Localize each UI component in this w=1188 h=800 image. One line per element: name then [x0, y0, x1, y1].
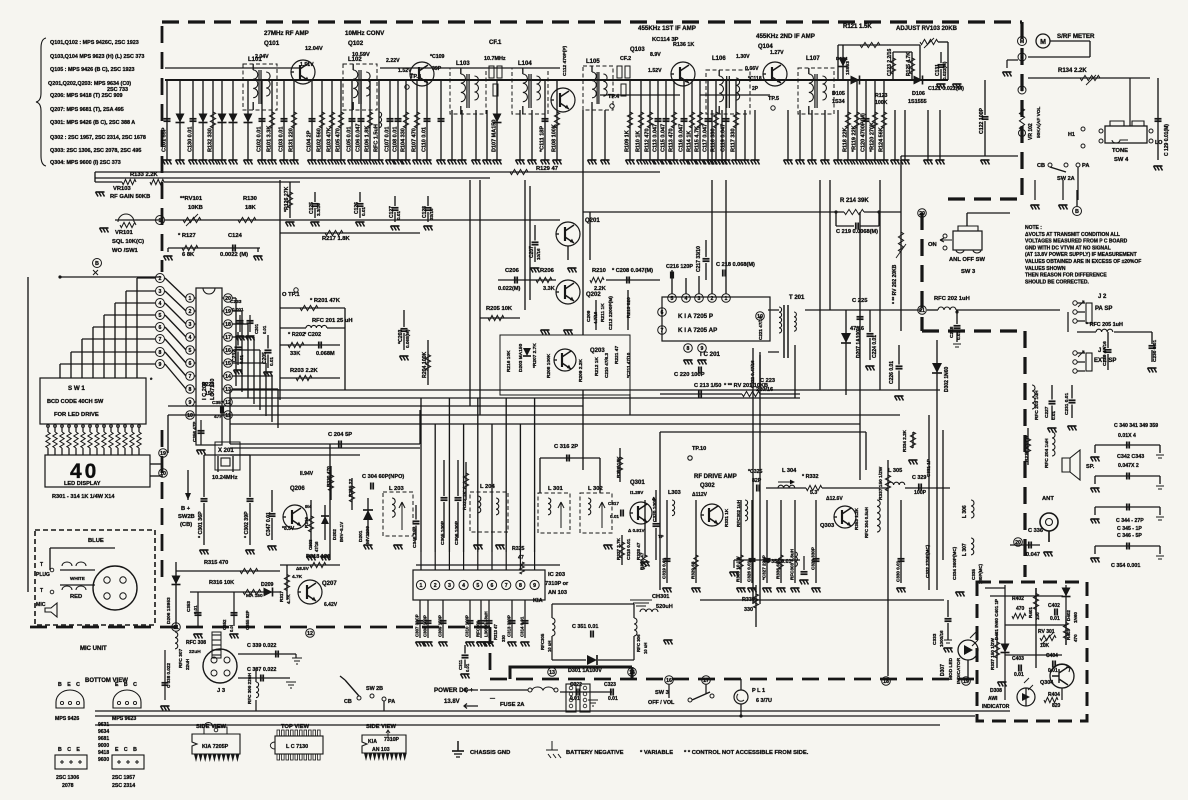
svg-text:9600: 9600: [98, 757, 109, 763]
svg-text:R217 1.8K: R217 1.8K: [322, 236, 351, 242]
svg-text:PA: PA: [1082, 163, 1089, 169]
svg-text:—: —: [490, 696, 495, 702]
svg-text:*8.5V: *8.5V: [282, 526, 295, 532]
svg-text:0.01: 0.01: [239, 355, 244, 364]
svg-text:Q303: Q303: [820, 523, 835, 529]
svg-text:TOP VIEW: TOP VIEW: [281, 724, 310, 730]
svg-text:L104: L104: [518, 61, 532, 67]
svg-text:H1: H1: [1068, 132, 1075, 138]
svg-text:*C109: *C109: [430, 54, 445, 60]
svg-text:R337 150 1/2W: R337 150 1/2W: [990, 637, 995, 670]
svg-text:C224 0.01: C224 0.01: [872, 335, 878, 358]
svg-text:VOLTAGES MEASURED FROM P C B: VOLTAGES MEASURED FROM P C BOARD: [1025, 239, 1128, 245]
svg-text:M: M: [1040, 39, 1046, 46]
svg-text:* C302 39P: * C302 39P: [244, 511, 250, 538]
svg-text:*C111 18P: *C111 18P: [540, 126, 546, 152]
svg-text:S W 1: S W 1: [68, 385, 85, 392]
svg-text:R129 47: R129 47: [536, 166, 558, 172]
svg-text:16: 16: [225, 348, 231, 354]
svg-text:9681: 9681: [98, 736, 109, 742]
svg-text:C319 0.01: C319 0.01: [662, 557, 667, 579]
svg-text:C323: C323: [604, 682, 616, 688]
svg-text:D106: D106: [912, 91, 925, 97]
svg-text:11: 11: [173, 625, 179, 631]
svg-text:* R332: * R332: [802, 474, 818, 480]
svg-text:6: 6: [491, 583, 494, 589]
svg-text:0.022(M): 0.022(M): [498, 286, 521, 292]
svg-text:THEN REASON FOR DIFFERENCE: THEN REASON FOR DIFFERENCE: [1025, 273, 1107, 279]
svg-text:R206: R206: [540, 268, 555, 274]
svg-text:1: 1: [159, 218, 162, 224]
svg-text:J 3: J 3: [217, 688, 226, 694]
svg-text:L 305: L 305: [888, 468, 902, 474]
svg-text:C217 33/10: C217 33/10: [696, 246, 702, 272]
svg-text:2.2K: 2.2K: [594, 286, 606, 292]
svg-text:C106 0.047: C106 0.047: [356, 124, 362, 152]
svg-text:R211 1K: R211 1K: [600, 303, 606, 322]
svg-text:0.01: 0.01: [956, 331, 961, 340]
svg-text:ΔVOLTS AT TRANSMIT CONDITION: ΔVOLTS AT TRANSMIT CONDITION ALL: [1025, 232, 1120, 238]
svg-text:R334 2.2K: R334 2.2K: [902, 429, 907, 452]
svg-text:4: 4: [159, 301, 162, 307]
svg-text:NOTE :: NOTE :: [1025, 225, 1042, 231]
svg-text:E C B: E C B: [115, 747, 139, 753]
svg-text:22uH: 22uH: [189, 649, 201, 655]
svg-text:520uH: 520uH: [656, 604, 673, 610]
svg-text:0.047X 2: 0.047X 2: [1118, 463, 1139, 469]
svg-text:C121 0.022(M): C121 0.022(M): [928, 86, 964, 92]
svg-text:CB: CB: [344, 699, 352, 705]
svg-text:C108 0.01: C108 0.01: [393, 127, 399, 152]
svg-text:82P: 82P: [752, 478, 762, 484]
svg-text:Q301: Q301: [630, 480, 645, 486]
svg-text:OFF / VOL: OFF / VOL: [648, 700, 675, 706]
svg-text:C104 2P: C104 2P: [307, 130, 313, 152]
svg-text:4.7K: 4.7K: [292, 574, 303, 580]
svg-text:6 3/7U: 6 3/7U: [756, 698, 772, 704]
svg-text:R107 470: R107 470: [412, 128, 418, 152]
svg-text:Q303: 2SC 1306, 2SC 2078, 2SC: Q303: 2SC 1306, 2SC 2078, 2SC 495: [50, 148, 141, 154]
svg-text:C 204 5P: C 204 5P: [328, 432, 352, 438]
svg-text:AWI: AWI: [988, 696, 998, 702]
svg-text:C 339 0.022: C 339 0.022: [247, 643, 276, 649]
svg-text:* ** RV 202 20KB: * ** RV 202 20KB: [892, 264, 898, 304]
svg-text:1N60: 1N60: [1073, 612, 1078, 623]
svg-text:L 302: L 302: [588, 486, 603, 492]
svg-text:*C211 47/10: *C211 47/10: [626, 352, 631, 378]
svg-text:R106 1.8K: R106 1.8K: [365, 126, 371, 152]
svg-text:MOD LED: MOD LED: [948, 657, 954, 680]
svg-text:PLUG: PLUG: [36, 572, 50, 578]
svg-text:AN 103: AN 103: [372, 747, 390, 753]
svg-text:C105 0.01: C105 0.01: [347, 127, 353, 152]
svg-text:MPS 9426: MPS 9426: [55, 716, 79, 722]
svg-text:R221 47: R221 47: [614, 346, 620, 364]
svg-text:2.22V: 2.22V: [386, 58, 400, 64]
svg-text:KIA 7205P: KIA 7205P: [202, 744, 229, 750]
svg-text:T: T: [40, 562, 43, 568]
svg-text:455KHz 2ND IF AMP: 455KHz 2ND IF AMP: [756, 33, 815, 40]
svg-text:0.01: 0.01: [465, 663, 470, 672]
svg-text:19: 19: [963, 679, 969, 685]
svg-text:RFC301: RFC301: [476, 620, 481, 637]
svg-text:C357: C357: [212, 400, 224, 406]
svg-text:* C208 0.047(M): * C208 0.047(M): [612, 268, 653, 274]
svg-text:C307 33CP: C307 33CP: [415, 614, 420, 637]
svg-text:C334 390P(MC): C334 390P(MC): [952, 546, 957, 580]
svg-text:R208 100K: R208 100K: [546, 353, 552, 378]
svg-text:RF GAIN 50KB: RF GAIN 50KB: [110, 194, 150, 200]
svg-text:2SC 1306: 2SC 1306: [56, 775, 79, 781]
svg-text:R109 1K: R109 1K: [625, 130, 631, 152]
svg-text:*R207 2.7K: *R207 2.7K: [532, 343, 538, 368]
svg-text:* RFC 205 1uH: * RFC 205 1uH: [1086, 322, 1123, 328]
svg-text:C112 470P(P): C112 470P(P): [562, 45, 568, 76]
svg-text:Q206: Q206: [290, 486, 305, 492]
svg-text:B: B: [1075, 209, 1079, 215]
svg-text:L 307: L 307: [962, 543, 968, 556]
svg-text:AN 103: AN 103: [548, 590, 567, 596]
svg-text:R205 10K: R205 10K: [486, 306, 513, 312]
svg-text:R212 1K: R212 1K: [594, 357, 600, 376]
svg-text:C 304 60P(NPO): C 304 60P(NPO): [362, 474, 404, 480]
svg-text:C 219 0.0068(M): C 219 0.0068(M): [836, 229, 878, 235]
svg-text:0.01: 0.01: [396, 211, 401, 220]
svg-text:10 uH: 10 uH: [643, 643, 648, 654]
svg-text:C306 100P: C306 100P: [454, 520, 460, 545]
svg-text:D209: D209: [261, 582, 274, 588]
svg-text:GND WITH DC VTVM AT NO SIGNA: GND WITH DC VTVM AT NO SIGNAL: [1025, 245, 1111, 251]
svg-text:14: 14: [629, 670, 635, 676]
svg-text:BLUE: BLUE: [88, 538, 104, 544]
svg-text:X 201: X 201: [218, 448, 234, 454]
svg-text:(AT 13.8V POWER SUPPLY) IF MEA: (AT 13.8V POWER SUPPLY) IF MEASUREMENT: [1025, 252, 1137, 258]
svg-text:R322 1K: R322 1K: [462, 491, 468, 510]
svg-text:C308 100P: C308 100P: [423, 615, 428, 637]
svg-text:6: 6: [159, 325, 162, 331]
svg-text:C210 47/6.3: C210 47/6.3: [604, 353, 609, 378]
svg-text:R209 2.2K: R209 2.2K: [578, 359, 584, 382]
svg-text:Δ112V: Δ112V: [692, 492, 708, 498]
svg-text:R318 120: R318 120: [306, 554, 330, 560]
svg-text:L 306: L 306: [962, 505, 968, 518]
svg-text:1000/16: 1000/16: [939, 630, 944, 647]
svg-text:9634: 9634: [98, 729, 109, 735]
svg-text:8.9V: 8.9V: [650, 52, 661, 58]
svg-text:R319: R319: [304, 517, 309, 528]
svg-text:0.01: 0.01: [262, 325, 267, 334]
svg-text:R101 3.3K: R101 3.3K: [267, 126, 273, 152]
svg-text:13.8V: 13.8V: [444, 699, 460, 705]
svg-text:1: 1: [420, 583, 423, 589]
svg-text:C355 82P: C355 82P: [245, 610, 250, 630]
svg-text:50KA(AF VOL: 50KA(AF VOL: [1036, 106, 1042, 138]
svg-text:RFC 308: RFC 308: [186, 640, 206, 646]
svg-text:C115 0.047: C115 0.047: [661, 124, 667, 152]
svg-text:C231 0.01: C231 0.01: [1064, 393, 1070, 415]
svg-text:ANL OFF SW: ANL OFF SW: [949, 257, 985, 263]
svg-text:C 354 0.001: C 354 0.001: [1111, 563, 1140, 569]
svg-text:21: 21: [919, 308, 925, 314]
svg-text:5: 5: [189, 348, 192, 354]
svg-text:C209: C209: [586, 310, 592, 322]
svg-text:R216 10K: R216 10K: [506, 350, 512, 372]
svg-text:D107 MA150: D107 MA150: [492, 120, 498, 152]
svg-text:C107 0.01: C107 0.01: [385, 127, 391, 152]
svg-text:16: 16: [666, 678, 672, 684]
svg-text:CF.1: CF.1: [489, 40, 502, 46]
svg-text:R316 10K: R316 10K: [209, 580, 234, 586]
svg-text:C 336: C 336: [1028, 528, 1043, 534]
svg-text:Q304: MPS 9600 (I) 2SC 373: Q304: MPS 9600 (I) 2SC 373: [50, 160, 121, 166]
svg-text:7: 7: [189, 374, 192, 380]
svg-text:R204 100K: R204 100K: [422, 352, 428, 378]
svg-text:C 351 0.01: C 351 0.01: [572, 624, 598, 630]
svg-text:RFC305: RFC305: [540, 633, 545, 650]
svg-text:ON: ON: [928, 242, 937, 248]
svg-text:SW 4: SW 4: [1114, 157, 1129, 163]
svg-text:B E C: B E C: [58, 682, 82, 688]
svg-text:470: 470: [1073, 634, 1078, 642]
svg-text:C335: C335: [971, 569, 976, 580]
svg-text:CB: CB: [1037, 163, 1045, 169]
svg-text:RFC302 1uH: RFC302 1uH: [736, 499, 741, 527]
svg-text:2P: 2P: [752, 86, 759, 92]
svg-text:C347 0.01: C347 0.01: [266, 512, 272, 536]
svg-text:0.01: 0.01: [1014, 672, 1024, 678]
svg-text:E B C: E B C: [115, 682, 139, 688]
svg-text:8: 8: [519, 583, 522, 589]
svg-text:L 203: L 203: [389, 486, 404, 492]
svg-text:19: 19: [160, 451, 166, 457]
svg-text:C205: C205: [262, 352, 268, 364]
svg-text:C216 120P: C216 120P: [666, 264, 693, 270]
svg-text:BCD CODE 40CH SW: BCD CODE 40CH SW: [47, 399, 104, 405]
svg-text:INDICATOR: INDICATOR: [956, 657, 962, 684]
svg-text:1: 1: [725, 296, 728, 302]
svg-text:*C203: *C203: [398, 329, 404, 344]
svg-text:R103 47K: R103 47K: [327, 127, 333, 152]
svg-text:SHOULD BE CORRECTED.: SHOULD BE CORRECTED.: [1025, 279, 1090, 285]
svg-text:7: 7: [661, 328, 664, 334]
svg-text:C120 4700P(M): C120 4700P(M): [861, 113, 867, 152]
svg-text:R401: R401: [1028, 607, 1033, 618]
svg-text:17: 17: [225, 335, 231, 341]
svg-text:J 2: J 2: [1098, 294, 1107, 300]
svg-text:C233: C233: [230, 299, 242, 305]
svg-text:D402: D402: [1066, 610, 1071, 621]
svg-text:Q202: Q202: [586, 292, 601, 298]
svg-text:ANT: ANT: [1042, 496, 1054, 502]
svg-text:C227: C227: [1044, 406, 1050, 418]
svg-text:C226 0.01: C226 0.01: [889, 361, 895, 384]
svg-text:R108 100K: R108 100K: [552, 124, 558, 152]
svg-text:R133 2.2K: R133 2.2K: [130, 172, 159, 178]
svg-text:R317: R317: [279, 591, 284, 602]
svg-text:10 uH: 10 uH: [547, 641, 552, 652]
svg-text:D202: D202: [332, 529, 337, 540]
svg-text:C206: C206: [505, 268, 520, 274]
svg-text:1.27V: 1.27V: [770, 50, 784, 56]
svg-text:3: 3: [159, 289, 162, 295]
svg-text:* * CONTROL NOT ACCESSIBLE FRO: * * CONTROL NOT ACCESSIBLE FROM SIDE.: [684, 750, 809, 756]
svg-text:* R201 47K: * R201 47K: [310, 298, 341, 304]
svg-text:FOR LED DRIVE: FOR LED DRIVE: [54, 412, 99, 418]
svg-text:C318 0.01: C318 0.01: [626, 538, 631, 560]
svg-text:R353 1.2K: R353 1.2K: [854, 507, 859, 530]
svg-text:2078: 2078: [62, 783, 74, 789]
svg-text:TONE: TONE: [1112, 148, 1128, 154]
svg-text:R102 560: R102 560: [317, 128, 323, 152]
svg-text:0.0022 (M): 0.0022 (M): [220, 252, 248, 258]
svg-text:C128: C128: [422, 206, 428, 218]
svg-text:C314 0.01: C314 0.01: [520, 616, 525, 637]
svg-text:R131 220: R131 220: [289, 128, 295, 152]
svg-text:R110 1K: R110 1K: [636, 131, 642, 152]
svg-text:SW 2B: SW 2B: [366, 686, 383, 692]
svg-text:C 220 100P: C 220 100P: [674, 372, 705, 378]
svg-text:R 214 39K: R 214 39K: [840, 198, 869, 204]
svg-text:C102 0.01: C102 0.01: [257, 127, 263, 152]
svg-text:C328 330P: C328 330P: [811, 547, 816, 570]
svg-text:Il.94V: Il.94V: [300, 471, 314, 477]
svg-text:VR 102: VR 102: [1028, 123, 1034, 140]
svg-text:3.3/16: 3.3/16: [316, 203, 321, 216]
svg-text:R130: R130: [243, 196, 257, 202]
svg-text:CHASSIS GND: CHASSIS GND: [470, 750, 510, 756]
svg-text:9418: 9418: [98, 750, 109, 756]
svg-text:O TP.1: O TP.1: [282, 292, 300, 298]
svg-text:Q101: Q101: [264, 40, 280, 47]
svg-text:C228: C228: [949, 326, 955, 338]
svg-text:0.01: 0.01: [608, 696, 618, 702]
svg-text:T: T: [40, 588, 43, 594]
svg-text:T 201: T 201: [789, 295, 805, 301]
svg-text:SP.: SP.: [1086, 464, 1095, 470]
svg-text:C124: C124: [228, 233, 243, 239]
svg-text:B C E: B C E: [58, 747, 82, 753]
svg-text:C125: C125: [309, 202, 315, 214]
svg-text:27MHz RF AMP: 27MHz RF AMP: [264, 30, 309, 37]
svg-text:INDICATOR: INDICATOR: [982, 704, 1010, 710]
svg-text:D203 MA150: D203 MA150: [518, 343, 524, 372]
svg-text:Δ8.5V: Δ8.5V: [296, 566, 310, 571]
svg-text:C 344 - 27P: C 344 - 27P: [1116, 518, 1144, 524]
svg-text:R105 470: R105 470: [336, 128, 342, 152]
svg-text:R328 47: R328 47: [640, 552, 645, 570]
svg-text:0.068(M): 0.068(M): [405, 329, 410, 348]
svg-text:6 8K: 6 8K: [182, 252, 195, 258]
svg-text:0.01: 0.01: [361, 207, 366, 216]
svg-text:SW 3: SW 3: [961, 269, 976, 275]
svg-text:1S953: 1S953: [845, 61, 851, 75]
svg-text:100P: 100P: [914, 490, 927, 496]
svg-text:10: 10: [187, 413, 193, 419]
svg-text:WHITE: WHITE: [70, 576, 85, 581]
svg-text:18: 18: [883, 679, 889, 685]
svg-text:RFC 1.5uH: RFC 1.5uH: [374, 124, 380, 152]
svg-text:PA: PA: [388, 699, 395, 705]
svg-text:3: 3: [698, 296, 701, 302]
svg-text:TP.5: TP.5: [768, 96, 779, 102]
svg-text:C333: C333: [932, 633, 938, 645]
svg-text:LO: LO: [1155, 140, 1163, 146]
svg-text:C 338 0.022: C 338 0.022: [166, 663, 171, 688]
svg-text:R104 330: R104 330: [401, 128, 407, 152]
svg-text:20: 20: [1015, 540, 1021, 546]
svg-text:10K: 10K: [1040, 643, 1050, 649]
svg-text:* C301 36P: * C301 36P: [198, 511, 204, 538]
svg-text:R134 2.2K: R134 2.2K: [1058, 68, 1087, 74]
svg-text:CH301: CH301: [652, 594, 669, 600]
svg-text:19: 19: [225, 309, 231, 315]
svg-text:LED DISPLAY: LED DISPLAY: [64, 481, 101, 487]
svg-text:RFC 304 0.5uH: RFC 304 0.5uH: [864, 507, 869, 538]
svg-text:Q207: Q207: [322, 581, 337, 587]
svg-text:SIDE VIEW: SIDE VIEW: [366, 724, 396, 730]
svg-text:VR101: VR101: [115, 230, 134, 236]
svg-text:R112 470: R112 470: [645, 128, 651, 152]
svg-text:R331 1K: R331 1K: [724, 508, 729, 527]
svg-text:5: 5: [159, 313, 162, 319]
svg-text:0.01: 0.01: [269, 357, 274, 366]
svg-text:(CB): (CB): [180, 522, 192, 528]
svg-text:820: 820: [1052, 703, 1061, 709]
svg-text:C117 0.047: C117 0.047: [703, 124, 709, 152]
svg-text:2: 2: [711, 296, 714, 302]
svg-text:L101: L101: [248, 57, 262, 63]
svg-text:D301 1A100V: D301 1A100V: [568, 668, 602, 674]
svg-text:SW 2A: SW 2A: [1057, 176, 1075, 182]
svg-text:12: 12: [307, 631, 313, 637]
svg-text:33K: 33K: [290, 351, 300, 357]
svg-text:15: 15: [225, 361, 231, 367]
svg-text:C309 150P: C309 150P: [438, 615, 443, 637]
svg-text:C221 47/16: C221 47/16: [758, 316, 763, 340]
svg-text:R402: R402: [1012, 596, 1024, 602]
svg-text:Q201: Q201: [585, 218, 600, 224]
svg-text:Q103,Q104 MPS 9623 (H) (L) 2S: Q103,Q104 MPS 9623 (H) (L) 2SC 373: [50, 54, 144, 60]
svg-text:C 337 0.022: C 337 0.022: [247, 667, 276, 673]
svg-text:R118 22K: R118 22K: [843, 128, 849, 152]
svg-text:R124 56K: R124 56K: [879, 127, 885, 152]
svg-text:PA SP: PA SP: [1095, 306, 1112, 312]
svg-text:9: 9: [533, 583, 536, 589]
svg-text:Δ: Δ: [652, 496, 656, 502]
svg-text:R315 470: R315 470: [204, 560, 228, 566]
svg-text:WO /SW1: WO /SW1: [112, 248, 139, 254]
svg-text:1.52V: 1.52V: [648, 68, 662, 74]
svg-text:20: 20: [919, 211, 925, 217]
svg-text:L305 0.33uH: L305 0.33uH: [484, 611, 489, 637]
svg-text:8: 8: [159, 350, 162, 356]
svg-text:0.022(M): 0.022(M): [942, 61, 947, 80]
svg-text:R223: R223: [202, 382, 214, 388]
svg-text:Q302: Q302: [700, 483, 715, 489]
svg-text:33/16: 33/16: [429, 208, 434, 220]
svg-text:R115 4.7K: R115 4.7K: [695, 126, 701, 152]
svg-text:C317: C317: [608, 501, 619, 506]
svg-text:C 346 - 5P: C 346 - 5P: [1117, 533, 1142, 539]
svg-text:C101 55P: C101 55P: [162, 127, 168, 152]
svg-text:S/RF METER: S/RF METER: [1057, 33, 1095, 40]
svg-text:C232: C232: [232, 350, 238, 362]
svg-text:R404: R404: [1048, 692, 1060, 698]
svg-text:9: 9: [159, 362, 162, 368]
svg-text:D201: D201: [358, 530, 364, 542]
svg-text:EXT. SP: EXT. SP: [1094, 358, 1116, 364]
svg-text:17: 17: [703, 678, 709, 684]
